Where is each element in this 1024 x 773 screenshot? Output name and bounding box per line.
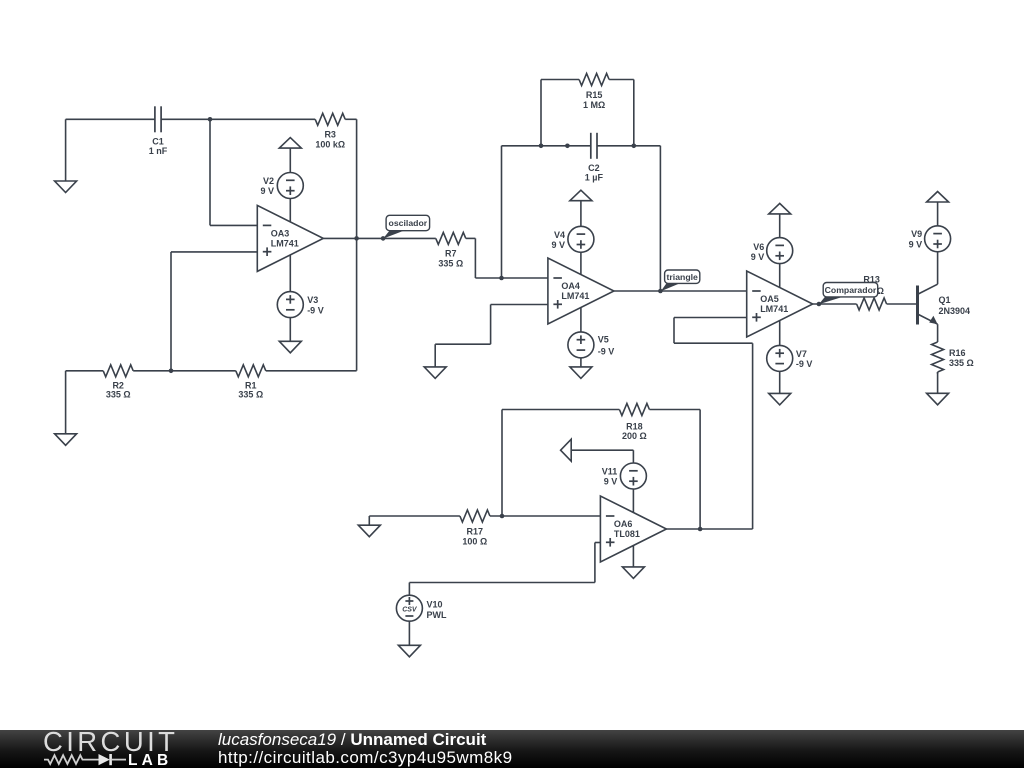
wire right vertical of integrator [659,146,661,291]
svg-text:R16: R16 [949,348,966,358]
ground below V7 [769,393,791,405]
svg-text:PWL: PWL [427,610,447,620]
ground OA4 non-inverting [424,367,446,379]
wire V6 string [779,214,781,304]
wire OA3 inverting input branch [210,119,257,225]
wire V4 string [580,201,582,292]
power flag left of V11 [561,439,572,461]
voltage source V11 9 V [602,463,647,489]
ground bottom-left [55,434,77,446]
wire bottom row R2 R1 [66,371,357,434]
svg-text:100 Ω: 100 Ω [462,537,487,547]
svg-text:V3: V3 [307,295,318,305]
resistor R13 [857,298,887,310]
resistor R16 335 Ω [932,324,974,374]
svg-text:V2: V2 [263,176,274,186]
power flag above V2 [279,138,301,149]
ground top-left [55,181,77,193]
svg-text:V4: V4 [554,230,565,240]
wire OA6 output row [666,528,752,530]
wire OA4 non-inverting branch to ground [435,305,548,367]
svg-text:C1: C1 [152,136,164,146]
svg-text:V6: V6 [753,242,764,252]
svg-text:1 nF: 1 nF [149,146,168,156]
wire top C2 row [502,145,661,147]
wire OA3 non-inverting branch [171,252,257,371]
svg-text:1 MΩ: 1 MΩ [583,100,605,110]
ground below R16 [927,393,949,405]
capacitor C2 1 µF [585,133,604,183]
transistor Q1 2N3904 [918,284,971,324]
svg-text:9 V: 9 V [909,240,923,250]
svg-text:LM741: LM741 [760,304,788,314]
node OA4 output junction [658,289,663,294]
ground below V3 [279,341,301,353]
svg-text:335 Ω: 335 Ω [949,358,974,368]
wire V11 flag branch [571,450,633,513]
svg-text:Comparador: Comparador [825,285,877,295]
wire OA5 non-inverting branch down to OA6 output [674,318,753,530]
wire R18 feedback loop [502,410,700,530]
svg-text:9 V: 9 V [604,476,618,486]
wire emitter to R16 and ground [937,372,939,393]
svg-text:OA6: OA6 [614,519,633,529]
wire R17 row [369,516,600,525]
svg-text:R15: R15 [586,90,603,100]
resistor R13 label [859,275,884,297]
svg-text:OA4: OA4 [561,281,580,291]
voltage source V2 9 V [260,173,303,199]
node R2/R1 junction [169,369,174,374]
wire right vertical feedback R3/R1 [356,119,358,370]
svg-text:V10: V10 [427,599,443,609]
ground below OA6 [622,567,644,579]
node OA4 inverting junction [499,276,504,281]
svg-text:V7: V7 [796,349,807,359]
resistor R1 335 Ω [236,365,266,400]
wire left branch of integrator [501,146,503,278]
svg-text:100 kΩ: 100 kΩ [315,140,345,150]
svg-text:oscilador: oscilador [389,218,428,228]
node OA6 output junction [698,527,703,532]
svg-text:9 V: 9 V [751,252,765,262]
svg-text:V11: V11 [602,467,618,477]
svg-text:OA5: OA5 [760,294,779,304]
node OA5 output junction [817,302,822,307]
wire top-left net from C1 to R3 [66,118,357,120]
wire R15 stubs and top [541,80,634,146]
svg-text:-9 V: -9 V [598,347,615,357]
ground left of R17 [358,525,380,537]
node R15 right stub [632,144,637,149]
wire OA6 ground pin [632,545,634,567]
power flag above V6 [769,203,791,214]
svg-text:OA3: OA3 [271,228,290,238]
voltage source V4 9 V [551,226,593,252]
svg-text:335 Ω: 335 Ω [438,259,463,269]
wire V10 to ground [408,621,410,645]
net label Comparador [819,283,878,305]
node R15 left stub [539,144,544,149]
svg-text:LM741: LM741 [561,291,589,301]
ground below V5 [570,367,592,379]
svg-text:R17: R17 [467,526,484,536]
svg-text:R3: R3 [324,129,336,139]
resistor R17 100 Ω [460,510,490,547]
svg-text:335 Ω: 335 Ω [238,390,263,400]
svg-text:-9 V: -9 V [796,359,813,369]
svg-text:1 µF: 1 µF [585,172,604,182]
resistor R15 1 MΩ [579,74,609,110]
voltage source V10 PWL CSV [396,595,447,621]
wire R7 to OA4 inverting input [466,238,548,278]
voltage source V3 -9 V [277,292,323,318]
voltage source V5 -9 V [568,332,614,358]
wire ground stem top-left [65,119,67,181]
node C1/R3 junction [208,117,213,122]
resistor R18 200 Ω [619,404,649,441]
resistor R2 335 Ω [103,365,133,400]
svg-text:9 V: 9 V [260,186,274,196]
svg-text:Q1: Q1 [939,295,951,305]
wire OA6 non-inverting branch to V10 [409,543,600,596]
op-amp OA5 LM741 [747,271,813,337]
power flag above V9 [927,192,949,203]
capacitor C1 1 nF [149,106,168,156]
svg-text:V5: V5 [598,335,609,345]
net label oscilador [383,215,430,238]
svg-text:CSV: CSV [402,607,418,614]
node OA3 output junction [354,236,359,241]
wire V2 string [289,148,291,224]
power flag above V4 [570,190,592,201]
svg-text:LAB: LAB [128,752,172,768]
svg-text:-9 V: -9 V [307,305,324,315]
svg-text:V9: V9 [911,229,922,239]
node R17/R18 junction [500,514,505,519]
wire V3 string [289,252,291,341]
wire V9 string collector [937,202,939,284]
wire OA5 output to R13 [813,303,918,305]
wire OA3 output to R7 [323,237,436,239]
node C2 left pin [565,144,570,149]
op-amp OA4 LM741 [548,258,614,324]
resistor R3 100 kΩ [315,113,345,149]
voltage source V7 -9 V [767,345,813,371]
svg-text:9 V: 9 V [551,240,565,250]
svg-text:R7: R7 [445,249,457,259]
svg-text:triangle: triangle [667,272,699,282]
wire V7 string [779,319,781,393]
ground below V10 [398,645,420,657]
op-amp OA6 TL081 [600,496,666,562]
svg-text:LM741: LM741 [271,238,299,248]
node oscilador anchor [381,236,386,241]
svg-text:335 Ω: 335 Ω [106,390,131,400]
op-amp OA3 LM741 [257,205,323,271]
voltage source V9 9 V [909,226,951,252]
voltage source V6 9 V [751,238,793,264]
resistor R7 335 Ω [436,232,466,268]
wire OA4 output to OA5 inverting input [614,290,747,292]
svg-text:200 Ω: 200 Ω [622,431,647,441]
svg-text:TL081: TL081 [614,529,640,539]
net label triangle [661,270,700,291]
svg-text:2N3904: 2N3904 [939,306,971,316]
wire V5 string [580,306,582,367]
